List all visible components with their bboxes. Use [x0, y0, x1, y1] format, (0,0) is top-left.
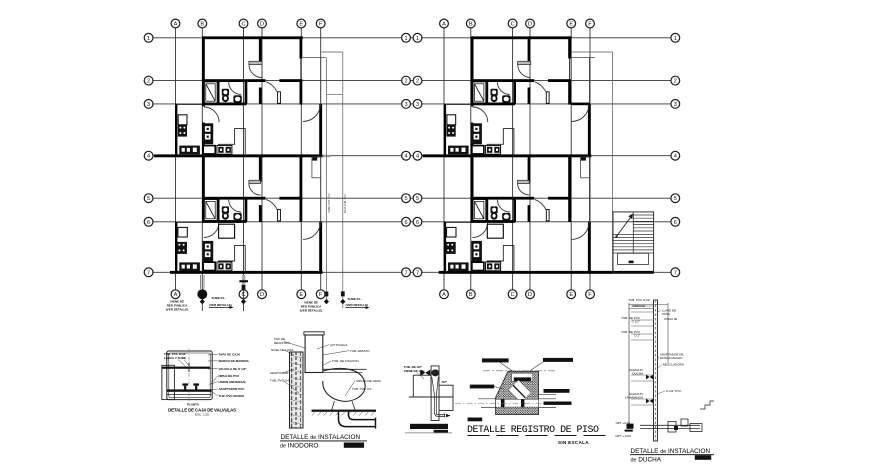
riser line left of stairwell (left block) — [325, 58, 327, 302]
inodoro wall — [290, 352, 304, 428]
valve symbol 2 — [193, 383, 199, 390]
window: E wall — [300, 59, 302, 81]
wall: top exterior (line 1) — [202, 36, 303, 39]
wall: line-5 interior right — [279, 197, 302, 200]
drain sleeve — [431, 366, 439, 421]
staircase outline — [613, 212, 654, 273]
registro label bar top-left — [482, 358, 512, 370]
wall: corridor upper — [259, 36, 262, 63]
inodoro tank — [305, 335, 323, 373]
svg-text:5: 5 — [147, 196, 150, 202]
svg-text:5: 5 — [404, 196, 407, 202]
svg-text:7: 7 — [416, 270, 419, 276]
svg-text:MARCO DE MADERA: MARCO DE MADERA — [219, 359, 250, 363]
wall: left exterior lower (grid B) — [202, 123, 205, 157]
valve box bottom line — [167, 393, 212, 395]
svg-text:F: F — [588, 292, 592, 298]
grid column E left — [300, 28, 302, 290]
grid bubble 4 mid-a — [402, 151, 411, 160]
ducha npt bar — [627, 424, 634, 429]
drain top fitting — [431, 369, 439, 376]
grid bubble D bottom-left-block — [258, 290, 267, 299]
valve symbol 1 — [182, 383, 188, 390]
ducha bottom piping — [640, 419, 702, 432]
door arc: terrace-bedroom — [303, 104, 321, 122]
svg-text:REBOSE: REBOSE — [632, 304, 645, 308]
svg-text:1: 1 — [674, 36, 677, 42]
door arc: bedroom lower — [266, 199, 277, 209]
note: viene de red publica (column A) — [166, 300, 189, 312]
grid bubble 3 left — [144, 100, 153, 109]
grid bubble 2 mid-b — [413, 76, 422, 85]
grid bubble 5 mid-b — [413, 194, 422, 203]
inodoro p-trap outer — [339, 412, 376, 427]
svg-text:(VER DETALLE): (VER DETALLE) — [166, 307, 189, 311]
grid bubble 6 left — [144, 217, 153, 226]
svg-text:(2)T.P/AGUA: (2)T.P/AGUA — [330, 343, 347, 347]
grid line 1 — [153, 37, 671, 39]
svg-text:C: C — [511, 22, 515, 28]
grid bubble 2 left — [144, 76, 153, 85]
grid bubble F bottom-right-block — [586, 290, 595, 299]
svg-text:E: E — [299, 292, 303, 298]
door leaf: hall cased opening — [249, 61, 262, 64]
inodoro floor — [312, 410, 377, 412]
door leaf: bedroom lower — [278, 209, 281, 221]
svg-text:TAPA DE CAJA: TAPA DE CAJA — [219, 353, 241, 357]
door leaf: bedroom — [278, 92, 281, 104]
note top-left — [164, 352, 190, 367]
grid column A left — [175, 28, 177, 290]
terrace edge vertical — [320, 58, 322, 104]
wall: right exterior (grid F) lower — [319, 222, 322, 273]
svg-text:A: A — [174, 22, 178, 28]
grid bubble 3 mid-a — [402, 100, 411, 109]
grid column A right — [443, 28, 445, 290]
grid column E right — [570, 28, 572, 290]
wall: right exterior upper (grid E) — [300, 36, 303, 58]
stairwell boundary line (right block) — [612, 52, 614, 273]
grid column D left — [261, 28, 263, 290]
svg-text:MEZCLADORA: MEZCLADORA — [663, 363, 684, 367]
grid bubble 3 right — [671, 100, 680, 109]
registro pipe line right extra — [539, 394, 556, 396]
stove — [178, 125, 187, 137]
door leaf: hall cased opening lower — [249, 180, 261, 183]
svg-text:3: 3 — [404, 102, 407, 108]
terrace edge vertical lower — [320, 178, 322, 222]
svg-text:4: 4 — [404, 154, 407, 160]
inodoro pedestal — [332, 401, 335, 410]
ducha left boundary — [628, 303, 630, 427]
inodoro p-trap end — [375, 418, 377, 429]
svg-text:NPT +-0.00: NPT +-0.00 — [616, 434, 632, 438]
door arc: terrace lower — [303, 222, 321, 240]
svg-text:B: B — [469, 292, 473, 298]
svg-text:C: C — [241, 22, 245, 28]
svg-text:DUCHA: DUCHA — [632, 372, 643, 376]
wall: corridor upper lower-unit — [259, 156, 262, 182]
note: viene de red publica (stairwell) — [300, 301, 323, 313]
wall: line-4 bottom exterior — [154, 154, 323, 157]
registro label bar left — [470, 385, 503, 389]
svg-text:de DUCHA: de DUCHA — [631, 456, 662, 463]
wall: line-2 interior right — [279, 79, 302, 82]
svg-text:A: A — [442, 292, 446, 298]
grid column B right — [470, 28, 472, 290]
grid line 7 — [153, 271, 671, 273]
wall: bathroom right lower — [245, 198, 248, 221]
svg-text:E: E — [569, 22, 573, 28]
ducha valve 2 — [646, 399, 653, 404]
wall: line-3 bathroom bottom — [202, 103, 246, 106]
grid bubble B bottom-left-block — [198, 290, 207, 299]
svg-text:F: F — [319, 22, 323, 28]
grid bubble B top-left-block — [198, 19, 207, 28]
grid line 3 — [153, 103, 671, 105]
shower stall — [204, 82, 217, 103]
wall: line-5 interior left — [202, 197, 266, 200]
inodoro wall hatch — [290, 355, 304, 425]
ducha second line — [667, 303, 669, 363]
table — [219, 224, 235, 238]
svg-text:TUB. ABASTO: TUB. ABASTO — [350, 349, 370, 353]
svg-text:SIN ESCALA: SIN ESCALA — [558, 440, 589, 445]
terrace closet lower — [312, 157, 321, 178]
grid bubble E top-right-block — [567, 19, 576, 28]
wall: left exterior upper (grid B) — [202, 36, 205, 106]
drain funnel — [432, 377, 439, 413]
wall: corridor stub — [259, 88, 262, 104]
registro concrete mass — [496, 371, 539, 414]
wall: shower divider lower — [218, 198, 220, 221]
grid bubble 1 mid-b — [413, 33, 422, 42]
svg-text:1: 1 — [147, 36, 150, 42]
svg-text:ESC. 1:25: ESC. 1:25 — [195, 412, 209, 416]
svg-text:D: D — [260, 292, 264, 298]
kitchen counter — [179, 146, 200, 155]
lavatory sink — [233, 95, 241, 102]
stairwell top edge (left block) — [322, 51, 343, 53]
grid column D right — [529, 28, 531, 290]
wall: kitchen annex left (grid A) — [175, 104, 177, 156]
double sink lower — [217, 262, 232, 271]
registro bottom pipe — [496, 399, 539, 407]
svg-text:TUB. PVC O4": TUB. PVC O4" — [352, 387, 372, 391]
valve box feed pipe — [162, 367, 211, 369]
staircase step mark — [629, 261, 634, 264]
valve box inner — [169, 353, 210, 398]
staircase upper treads — [633, 215, 653, 231]
svg-text:6: 6 — [404, 220, 407, 226]
svg-text:3: 3 — [674, 102, 677, 108]
door arc: bathroom lower — [229, 200, 241, 212]
wall: corridor stub lower-unit — [259, 205, 262, 222]
registro top centerline — [483, 370, 557, 372]
grid bubble D top-right-block — [526, 19, 535, 28]
wall: right exterior (grid E) lower — [300, 156, 303, 222]
L-counter outline lower — [218, 245, 245, 271]
grid bubble 4 right — [671, 151, 680, 160]
notes right column — [208, 353, 241, 357]
riser valve at column C — [239, 275, 248, 311]
valve box cross tick — [188, 363, 190, 372]
drain caption bar 1 — [410, 424, 448, 429]
stove lower — [177, 242, 187, 254]
svg-text:2: 2 — [416, 79, 419, 85]
valve box bottom pipe — [167, 389, 212, 391]
grid bubble 7 mid-b — [413, 268, 422, 277]
inodoro seat lines — [323, 368, 367, 370]
svg-text:F: F — [588, 22, 592, 28]
door arc: bedroom — [266, 82, 277, 92]
valve box outer — [167, 351, 212, 400]
caption scale bar — [344, 443, 364, 448]
grid bubble 5 left — [144, 194, 153, 203]
grid bubble 7 left — [144, 268, 153, 277]
shower stall lower — [204, 199, 217, 220]
wall: line-7 bottom exterior — [170, 271, 323, 274]
grid line 6 — [153, 221, 671, 223]
svg-text:ADAPTADOR PVC: ADAPTADOR PVC — [219, 387, 246, 391]
drain flow arrow — [446, 414, 451, 417]
svg-text:TUB. PVC RIGIDO: TUB. PVC RIGIDO — [219, 394, 245, 398]
svg-text:PLANTA: PLANTA — [187, 402, 200, 406]
registro pipe lines left — [478, 398, 496, 400]
grid bubble D bottom-right-block — [526, 290, 535, 299]
door arc: hall lower — [249, 183, 261, 195]
svg-text:(VER DETALLE): (VER DETALLE) — [209, 303, 232, 307]
wall: shower divider — [218, 81, 220, 104]
svg-text:SUBE P.L.: SUBE P.L. — [212, 296, 226, 300]
leader lines right — [317, 345, 355, 396]
grid bubble 6 mid-b — [413, 217, 422, 226]
grid bubble 4 mid-b — [413, 151, 422, 160]
grid bubble F bottom-left-block — [316, 290, 325, 299]
inodoro bowl — [323, 368, 365, 401]
door arc: kitchen — [204, 107, 219, 122]
kitchen tall unit lower — [203, 241, 214, 262]
drain right box — [439, 385, 453, 410]
wall: left exterior (grid B) lower unit — [202, 156, 205, 222]
svg-text:DETALLE de INSTALACION: DETALLE de INSTALACION — [631, 448, 711, 455]
svg-text:6: 6 — [416, 220, 419, 226]
riser valve at column B — [198, 275, 207, 311]
stairwell boundary line (left block) — [342, 52, 344, 308]
grid bubble E bottom-left-block — [297, 290, 306, 299]
svg-text:de INODORO: de INODORO — [280, 443, 318, 450]
svg-text:7: 7 — [404, 270, 407, 276]
svg-text:O 1/2" PVC: O 1/2" PVC — [666, 389, 682, 393]
svg-text:D: D — [528, 292, 532, 298]
drain elbow tick — [444, 414, 446, 418]
grid column C left — [243, 28, 245, 290]
grid bubble B top-right-block — [466, 19, 475, 28]
svg-text:BAJA TUB. PVC: BAJA TUB. PVC — [343, 194, 347, 213]
door arc: bathroom — [229, 82, 241, 94]
svg-text:O 2": O 2" — [634, 334, 640, 338]
ducha leaders right — [658, 310, 666, 394]
right block: top unit copy — [423, 36, 595, 157]
drain caption bar 2 — [434, 430, 448, 433]
grid bubble 7 right — [671, 268, 680, 277]
grid bubble E top-left-block — [297, 19, 306, 28]
ducha valve 1 — [646, 375, 653, 380]
grid bubble 3 mid-b — [413, 100, 422, 109]
svg-text:B: B — [200, 22, 204, 28]
svg-text:1: 1 — [404, 36, 407, 42]
svg-text:LAVAMANOS: LAVAMANOS — [625, 396, 643, 400]
svg-text:LLEGA Y SUBE: LLEGA Y SUBE — [164, 356, 186, 360]
ducha leaders left — [631, 306, 654, 405]
grid bubble 6 right — [671, 217, 680, 226]
grid bubble D top-left-block — [258, 19, 267, 28]
svg-text:A: A — [442, 22, 446, 28]
staircase divider — [632, 212, 634, 253]
grid bubble 6 mid-a — [402, 217, 411, 226]
riser valve at stairwell line 326 — [324, 292, 329, 305]
caption ducha scale bar — [695, 455, 711, 460]
grid bubble C bottom-left-block — [239, 290, 248, 299]
svg-text:5: 5 — [416, 196, 419, 202]
svg-text:PASO: PASO — [662, 312, 671, 316]
svg-text:D: D — [528, 22, 532, 28]
double sink — [217, 145, 232, 154]
svg-text:4: 4 — [416, 154, 419, 160]
lavatory sink lower — [233, 213, 241, 220]
registro pipe lines right — [539, 398, 556, 400]
fridge — [178, 115, 187, 125]
svg-text:TUB. PVC O4": TUB. PVC O4" — [270, 379, 290, 383]
svg-text:NIPLE DE PVC: NIPLE DE PVC — [219, 374, 241, 378]
door arc: hall — [249, 65, 262, 78]
svg-text:7: 7 — [674, 270, 677, 276]
drain notes top — [404, 365, 425, 379]
door arc: kitchen lower — [204, 222, 219, 237]
registro label bar right 1 — [544, 389, 570, 393]
wall: right exterior mid (grid E) — [300, 79, 303, 104]
svg-text:SUBE P.L.: SUBE P.L. — [348, 297, 362, 301]
grid column C right — [512, 28, 514, 290]
svg-text:ROSCA MACHO: ROSCA MACHO — [660, 356, 683, 360]
kitchen counter lower — [179, 262, 200, 271]
svg-text:F: F — [319, 292, 323, 298]
terrace closet mark — [312, 157, 317, 160]
drain elbow — [435, 413, 445, 416]
inodoro p-trap inner — [349, 412, 376, 420]
ducha wall — [654, 300, 658, 441]
svg-text:(VER DETALLE): (VER DETALLE) — [300, 308, 323, 312]
grid column F right — [589, 28, 591, 290]
svg-text:3: 3 — [416, 102, 419, 108]
grid bubble 1 left — [144, 33, 153, 42]
leader lines left — [283, 342, 305, 394]
grid line 5 — [153, 197, 671, 199]
grid bubble 1 mid-a — [402, 33, 411, 42]
caption underline dashes — [468, 435, 613, 437]
svg-text:DETALLE de INSTALACION: DETALLE de INSTALACION — [281, 434, 361, 441]
registro centerline horizontal — [455, 402, 560, 404]
wall: kitchen annex left lower — [175, 222, 177, 272]
grid bubble F top-right-block — [586, 19, 595, 28]
L-counter outline — [218, 129, 245, 155]
staircase landing — [618, 253, 649, 264]
grid bubble 4 left — [144, 151, 153, 160]
grid column F left — [320, 28, 322, 290]
note: sube pl (stairwell) — [346, 297, 370, 309]
drain left box — [413, 375, 431, 397]
ducha bottom fitting dark — [674, 426, 678, 430]
grid bubble 1 right — [671, 33, 680, 42]
grid bubble C top-right-block — [508, 19, 517, 28]
valve box left strip — [162, 365, 175, 399]
ducha step profile — [700, 401, 714, 409]
grid bubble A top-right-block — [440, 19, 449, 28]
staircase up arrow — [615, 213, 633, 237]
right block: bottom unit copy — [439, 156, 592, 274]
wall: right block line-3 terrace — [571, 103, 590, 106]
grid bubble 5 right — [671, 194, 680, 203]
wall: bathroom right — [245, 81, 248, 104]
svg-text:E: E — [299, 22, 303, 28]
svg-text:6: 6 — [674, 220, 677, 226]
terrace edge horizontal — [302, 57, 326, 59]
svg-text:3: 3 — [147, 102, 150, 108]
drain ground line — [409, 396, 453, 398]
registro label bar top-right — [530, 358, 573, 371]
svg-text:4: 4 — [674, 154, 677, 160]
grid bubble 2 mid-a — [402, 76, 411, 85]
wall: right exterior rows3-4 (grid F) — [319, 104, 322, 156]
grid bubble E bottom-right-block — [567, 290, 576, 299]
svg-text:(VER DETALLE): (VER DETALLE) — [346, 303, 369, 307]
svg-text:CODO 90: CODO 90 — [664, 317, 678, 321]
svg-text:6: 6 — [147, 220, 150, 226]
wall: line-2 interior left — [202, 79, 266, 82]
svg-text:D: D — [260, 22, 264, 28]
toilet — [222, 89, 229, 102]
registro top plug — [512, 373, 533, 381]
kitchen tall unit — [203, 123, 214, 144]
svg-text:2: 2 — [404, 79, 407, 85]
svg-text:SUBE TUB. PVC: SUBE TUB. PVC — [327, 193, 331, 213]
wall: annex top thin lower — [177, 221, 202, 223]
staircase lower treads — [613, 234, 654, 253]
grid column B left — [201, 28, 203, 290]
drain bowtie valve — [420, 370, 430, 376]
wall: line-6 bathroom bottom — [202, 220, 246, 223]
riser valve at stairwell line 342 — [340, 291, 345, 304]
svg-text:B: B — [469, 22, 473, 28]
valve box centerline — [188, 349, 190, 402]
toilet lower — [222, 206, 229, 219]
svg-text:VIENE DE LAV.: VIENE DE LAV. — [404, 369, 425, 373]
svg-text:2: 2 — [674, 79, 677, 85]
grid bubble 5 mid-a — [402, 194, 411, 203]
wall: line-7 extension under stair — [591, 271, 654, 274]
dishwasher lower — [203, 262, 215, 270]
grid line 4 — [153, 155, 671, 157]
registro label bar right 2 — [544, 402, 572, 405]
grid bubble C bottom-right-block — [508, 290, 517, 299]
svg-text:ANILLO DE CERA: ANILLO DE CERA — [356, 379, 381, 383]
grid bubble B bottom-right-block — [466, 290, 475, 299]
stairwell top edge (right block) — [572, 51, 613, 53]
grid bubble 2 right — [671, 76, 680, 85]
wall: gray tail line4 left block — [323, 155, 331, 157]
svg-text:UNION UNIVERSAL: UNION UNIVERSAL — [219, 380, 247, 384]
grid bubble A top-left-block — [171, 19, 180, 28]
